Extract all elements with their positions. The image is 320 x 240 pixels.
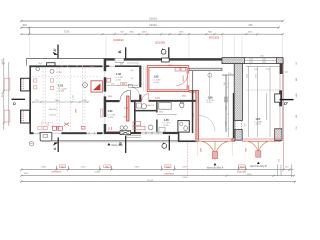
red opening mark near party wall top (107, 78, 111, 82)
chimney box middle (162, 58, 170, 62)
bathroom inner wall vertical (156, 102, 157, 113)
washer box room 1.05 (159, 128, 165, 133)
door fan B arcs (244, 141, 272, 158)
section marker A' top (53, 45, 58, 59)
red corner mark P2 (232, 139, 235, 141)
dim line top second (20, 27, 279, 35)
svg-text:1970: 1970 (266, 69, 270, 71)
svg-text:250: 250 (296, 126, 298, 129)
svg-text:+0.580: +0.580 (153, 82, 159, 84)
middle bottom wall (106, 132, 178, 134)
svg-text:B: B (117, 50, 122, 53)
fixture box left of wall (128, 84, 132, 87)
svg-text:(870/100): (870/100) (209, 37, 219, 40)
1.06 bottom red wall (199, 139, 233, 141)
pink echo box upper left (4, 78, 10, 90)
bottom right small dims (278, 165, 292, 178)
svg-text:4.750: 4.750 (57, 72, 63, 74)
new entrance marker (107, 143, 110, 146)
svg-text:-0.200: -0.200 (207, 102, 212, 104)
svg-text:21010: 21010 (149, 16, 158, 20)
svg-text:+0.580: +0.580 (58, 91, 65, 93)
left bay window upper (21, 78, 30, 91)
svg-text:900: 900 (245, 124, 247, 127)
party wall door gaps (104, 71, 106, 124)
door fan A red hatched centre post (212, 152, 218, 159)
svg-text:7190: 7190 (64, 30, 70, 33)
svg-text:(800): (800) (182, 95, 186, 97)
bottom band fixtures room 1.01 (38, 122, 53, 129)
section marker A bottom (53, 137, 58, 152)
partition strip lines left of red room (144, 66, 146, 92)
room 1.02 walls right (139, 65, 141, 87)
red hatched post left of garage door A (195, 138, 198, 141)
svg-text:2100: 2100 (254, 69, 258, 71)
red dashes in upper bay (22, 79, 23, 90)
svg-text:(90): (90) (124, 117, 127, 119)
extension lines to top dims (30, 36, 283, 58)
gap in wall at bathroom door (142, 100, 149, 102)
corridor top wall right of red room (189, 68, 222, 70)
svg-text:900: 900 (296, 78, 298, 81)
svg-text:125x90: 125x90 (49, 114, 57, 116)
red hatched post right of garage door A (232, 138, 235, 141)
hatched pier P1 (234, 59, 242, 121)
left bay window lower (21, 110, 30, 123)
red dashes in lower bay (22, 111, 23, 122)
right pier hatched (274, 129, 282, 141)
svg-text:4000: 4000 (201, 148, 203, 152)
svg-text:860: 860 (249, 24, 254, 27)
red edge right pier (273, 129, 275, 141)
right section top wall hatched (222, 58, 283, 64)
washbasin circle (141, 104, 146, 109)
overhang left corner (26, 59, 28, 66)
svg-text:3100: 3100 (81, 167, 87, 169)
corridor thin wall near right section (225, 75, 227, 132)
red legend box with triangle (91, 81, 102, 92)
opening in top wall (115, 59, 124, 61)
svg-text:90: 90 (131, 78, 133, 80)
red ticks near entry (109, 127, 112, 130)
right wall pilaster (275, 94, 281, 102)
garage door B red lintel (242, 139, 281, 141)
1.02 interior dim line (107, 85, 139, 87)
svg-text:(1900/870): (1900/870) (51, 171, 61, 173)
door gap at A (52, 132, 61, 134)
left house left wall (29, 65, 31, 132)
svg-text:800: 800 (23, 24, 28, 27)
right wall window band upper (280, 74, 283, 90)
red room bottom red wall extension (189, 89, 198, 91)
kitchen red counter room 1.04 (133, 122, 145, 130)
door dashes between piers (235, 121, 241, 130)
svg-text:(900): (900) (183, 177, 188, 179)
bottom dim line 1 (20, 166, 293, 171)
hatched pier P2 (235, 130, 242, 141)
window band opening bottom wall (141, 132, 163, 134)
svg-text:150: 150 (296, 62, 298, 65)
svg-text:1970: 1970 (255, 74, 257, 78)
right section left wall dark edge (233, 93, 235, 138)
red fixtures in 1.03 (175, 68, 186, 71)
pink furniture squares room 1.01 (34, 79, 54, 90)
svg-text:1.05: 1.05 (164, 119, 169, 122)
svg-text:0.60x1.97: 0.60x1.97 (147, 105, 155, 107)
step wall down right of 1.05 (178, 132, 180, 142)
red boundary line right (283, 59, 285, 170)
pink echo box lower left (4, 110, 10, 122)
svg-text:D': D' (284, 101, 288, 106)
red sill line left of entry (107, 131, 120, 133)
radiator pink on party wall (100, 109, 102, 117)
wc appendix box (178, 121, 189, 133)
middle section top wall (106, 59, 222, 61)
red room 1.03 outer wall (147, 66, 189, 92)
1.06 interior dim line (227, 76, 229, 137)
svg-text:185x200: 185x200 (49, 109, 58, 111)
svg-text:D: D (13, 101, 16, 106)
svg-text:4820: 4820 (248, 31, 254, 33)
section marker D left (12, 99, 26, 106)
svg-text:150: 150 (228, 73, 231, 75)
left house bottom wall left part (29, 132, 52, 134)
svg-text:1.04: 1.04 (108, 110, 113, 113)
red wall vertical new (196, 90, 199, 140)
svg-text:470: 470 (111, 83, 114, 85)
roof overhang line (27, 58, 223, 60)
dim line top third with ticks (20, 33, 283, 35)
section marker D' right (280, 100, 294, 107)
small grey box bottom (52, 126, 62, 130)
red room door gap right (187, 74, 190, 86)
left house bottom wall right part (61, 132, 102, 134)
svg-text:13450: 13450 (94, 172, 101, 174)
svg-text:1.07: 1.07 (256, 118, 261, 121)
svg-text:3000: 3000 (246, 148, 248, 152)
svg-text:+0.560: +0.560 (115, 80, 121, 82)
door arc 1.02 east (131, 87, 139, 95)
svg-text:430: 430 (131, 70, 134, 72)
svg-text:2440: 2440 (142, 31, 148, 33)
door arc 1.02 (120, 90, 131, 101)
svg-text:21010: 21010 (147, 180, 154, 182)
door fan A triangle (214, 163, 217, 165)
circled pair near entry (120, 126, 124, 130)
red room 1.03 inner wall (149, 67, 187, 90)
door arc room 1.06 (199, 116, 215, 132)
svg-text:1.150: 1.150 (73, 95, 75, 100)
svg-text:+0.220: +0.220 (255, 124, 261, 126)
svg-text:Vjezd do dílny B: Vjezd do dílny B (250, 166, 267, 168)
left house top wall (29, 65, 102, 67)
svg-text:(100): (100) (124, 108, 128, 110)
shower box (137, 103, 142, 108)
door opening 1.02 (120, 100, 131, 103)
wc ellipse appendix (184, 126, 188, 131)
fixture circle 1.04 (148, 125, 153, 130)
corridor thin walls (192, 71, 194, 101)
bottom dim line 2 (20, 175, 295, 177)
circled symbol bottom left (29, 142, 33, 146)
circled K (83, 83, 88, 88)
svg-text:5440: 5440 (296, 93, 298, 97)
circled mark 1 top of room 1.01 (50, 69, 54, 73)
bathroom dividing wall horizontal (134, 110, 156, 112)
small arrow mark top wall (39, 62, 43, 64)
door fan B red hatched centre post (256, 151, 261, 157)
section marker B top (117, 47, 126, 59)
party wall between houses (104, 59, 107, 135)
corridor circle symbol (208, 73, 212, 77)
svg-text:+0.580: +0.580 (163, 125, 169, 127)
right wall upper block (280, 64, 283, 75)
small ticks right margin (285, 72, 289, 103)
entry porch step lines (127, 136, 142, 138)
horizontal dashed line room 1.01 (32, 76, 100, 78)
svg-text:250: 250 (278, 159, 280, 162)
section marker B bottom (117, 136, 125, 153)
bathroom right wall (192, 90, 194, 133)
right wall middle block (279, 90, 282, 106)
svg-text:1700: 1700 (182, 167, 188, 169)
svg-text:(150/100): (150/100) (237, 171, 246, 173)
svg-text:Nový vstup: Nový vstup (112, 144, 124, 147)
interior dim line room 1.01 (32, 101, 89, 103)
svg-text:(1900/870): (1900/870) (164, 173, 174, 175)
horizontal wall over bathroom and 1.06 (133, 100, 198, 102)
entry porch box (40, 132, 52, 141)
entry door X symbol (120, 131, 131, 135)
section marker C top (circle symbol) (161, 47, 169, 58)
svg-text:250: 250 (260, 55, 263, 57)
window sill lines room 1.02 top (127, 63, 139, 64)
svg-text:1.03: 1.03 (154, 75, 159, 78)
room 1.02 top wall (106, 65, 139, 67)
svg-text:1.01: 1.01 (58, 83, 64, 87)
lower bottom wall (179, 140, 198, 142)
red room door arc (176, 74, 187, 85)
chimney bump left house (47, 63, 55, 66)
wc ellipse 1.05 (180, 102, 184, 108)
svg-text:(1500): (1500) (155, 98, 160, 100)
left vertical dim line (3, 58, 9, 130)
door fan A arcs (198, 141, 232, 160)
red door arc bathroom (142, 94, 149, 101)
svg-text:100: 100 (296, 115, 298, 118)
svg-text:Vjezd do dílny A: Vjezd do dílny A (207, 166, 224, 169)
right wall window band lower (280, 106, 283, 129)
room 1.01 dashed ceiling lines (43, 68, 85, 132)
porch inner mark (43, 135, 48, 138)
svg-text:2680: 2680 (75, 109, 77, 113)
red marks bottom band (57, 123, 86, 130)
red wall 1.04 right (127, 96, 129, 121)
svg-text:2790: 2790 (179, 31, 185, 33)
room 1.02 bottom wall (106, 100, 134, 102)
bathtub room 1.05 (159, 103, 171, 110)
door fan B triangle (257, 162, 260, 164)
red dashed extension line mid bottom (187, 143, 189, 176)
svg-text:2100: 2100 (246, 74, 248, 78)
svg-text:5850: 5850 (135, 167, 141, 169)
svg-text:1.02: 1.02 (116, 73, 121, 76)
svg-text:(210/340): (210/340) (155, 42, 165, 45)
dim line top total (20, 20, 283, 22)
bathroom left wall (134, 100, 136, 134)
svg-text:(900): (900) (108, 96, 113, 98)
pavement line below building (52, 141, 179, 142)
svg-text:(100/340): (100/340) (113, 39, 123, 42)
svg-text:2400: 2400 (41, 167, 47, 169)
svg-text:6470: 6470 (2, 58, 4, 64)
section marker C bottom (circle symbol) (162, 136, 169, 151)
garage interior dim lines (246, 66, 280, 137)
svg-text:A': A' (53, 48, 57, 51)
window ticks top wall (62, 65, 95, 67)
svg-text:200/262: 200/262 (183, 75, 185, 81)
bottom dim line 3 total (20, 181, 296, 183)
svg-text:+0.580: +0.580 (108, 117, 114, 119)
svg-text:4740: 4740 (2, 91, 4, 97)
svg-text:19910: 19910 (149, 23, 157, 27)
